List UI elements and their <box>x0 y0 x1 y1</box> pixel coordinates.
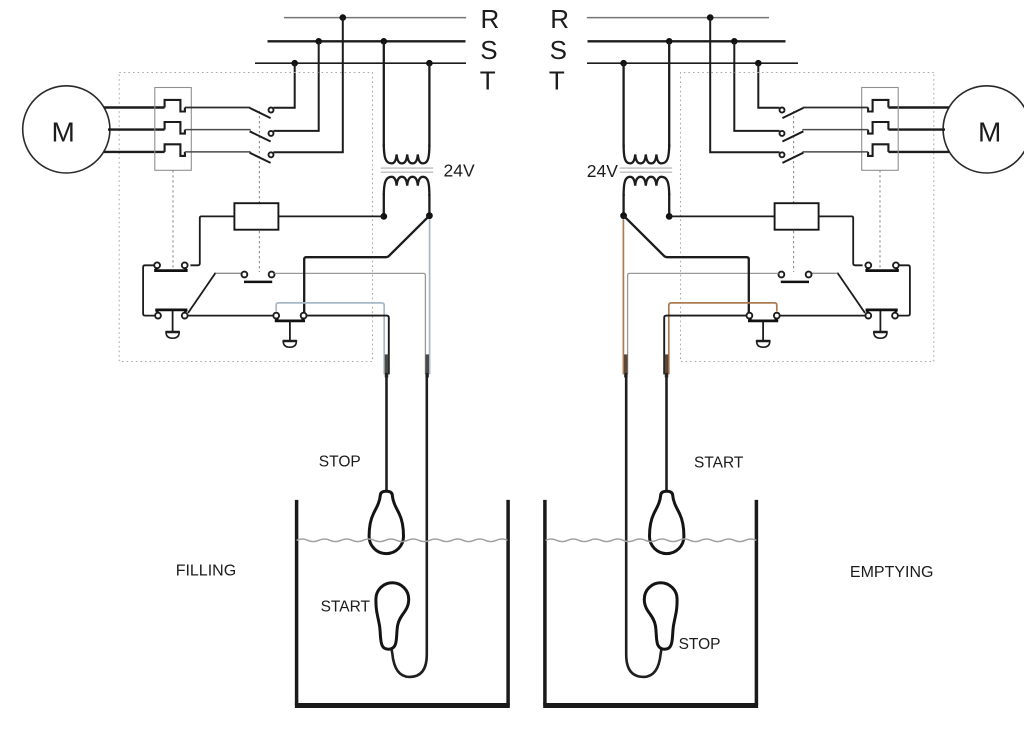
svg-text:EMPTYING: EMPTYING <box>850 564 934 581</box>
svg-text:M: M <box>52 116 75 147</box>
svg-text:R: R <box>550 4 569 34</box>
svg-text:STOP: STOP <box>679 636 721 653</box>
svg-text:R: R <box>481 4 500 34</box>
svg-text:T: T <box>480 66 496 96</box>
svg-text:FILLING: FILLING <box>176 563 236 580</box>
svg-text:24V: 24V <box>587 161 618 181</box>
labels <box>480 4 569 96</box>
svg-text:START: START <box>694 455 744 472</box>
svg-text:M: M <box>978 117 1001 148</box>
svg-text:T: T <box>549 66 565 96</box>
left FILLING circuit <box>23 14 510 705</box>
svg-text:START: START <box>321 598 371 615</box>
svg-text:24V: 24V <box>444 160 475 180</box>
svg-text:STOP: STOP <box>319 453 361 470</box>
right EMPTYING circuit (mirrored) <box>543 14 1024 705</box>
svg-text:S: S <box>550 35 567 65</box>
svg-text:S: S <box>480 35 497 65</box>
